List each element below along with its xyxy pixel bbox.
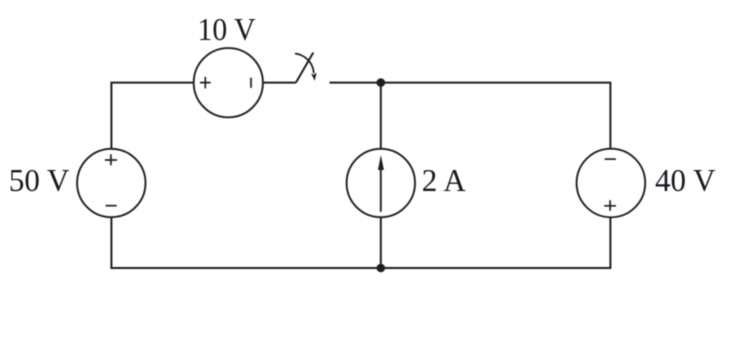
svg-text:10 V: 10 V	[198, 11, 256, 47]
svg-text:50 V: 50 V	[9, 162, 70, 198]
svg-text:2 A: 2 A	[422, 162, 466, 198]
svg-text:40 V: 40 V	[655, 162, 716, 198]
